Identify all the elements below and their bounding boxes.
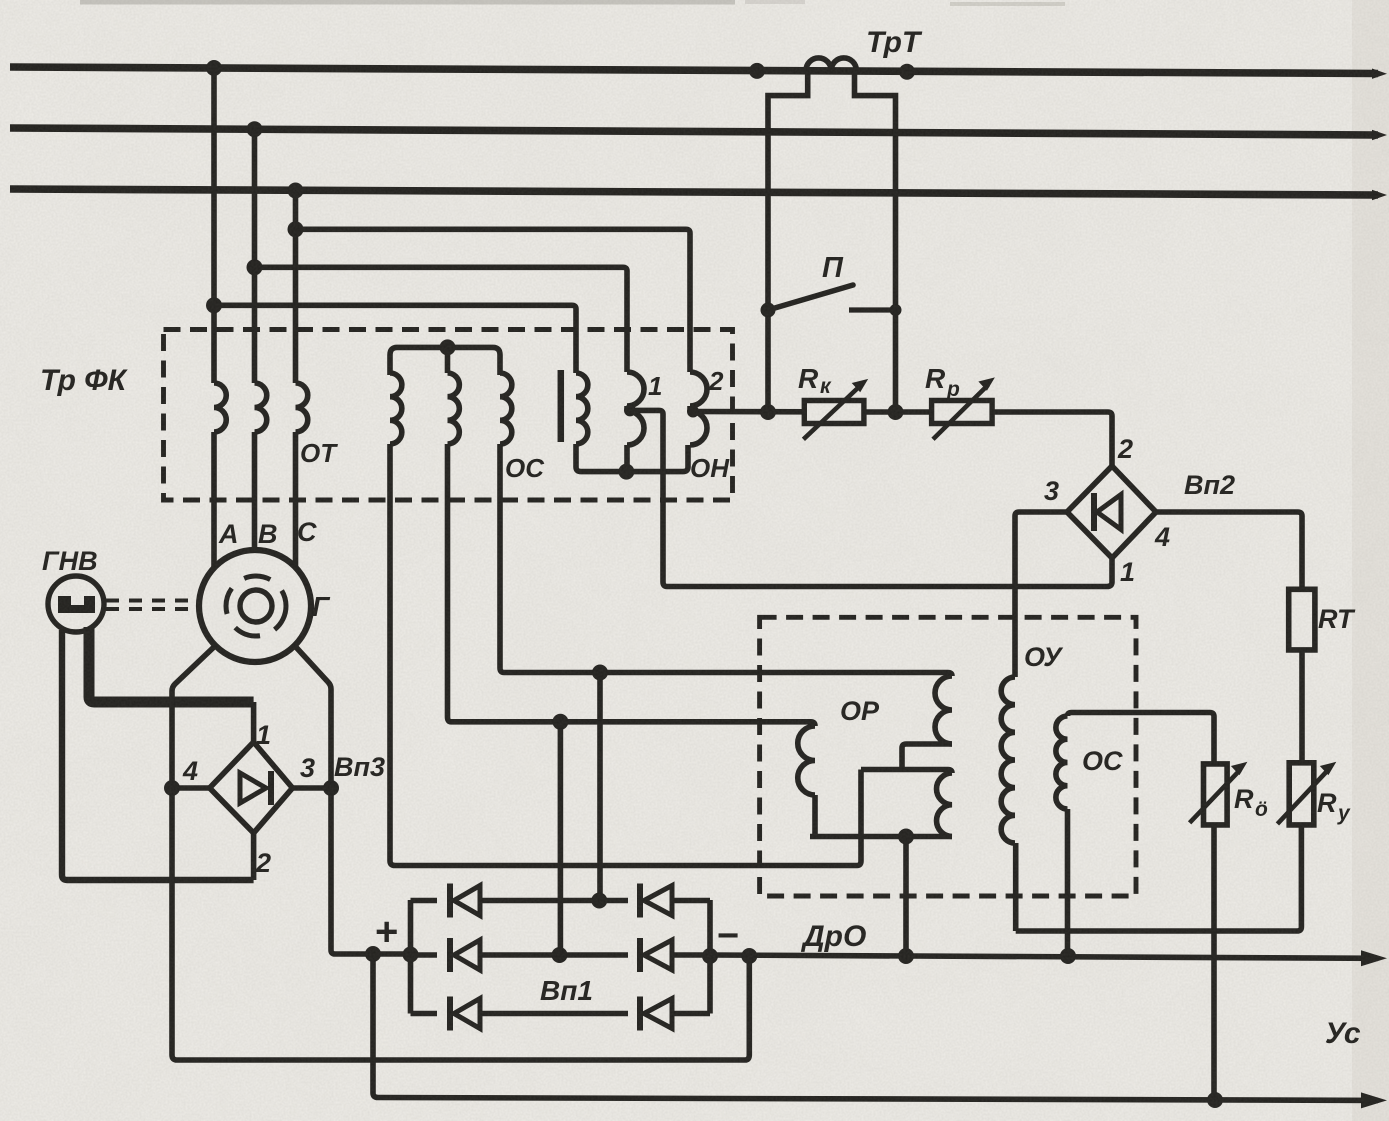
transformer core bar — [558, 370, 565, 442]
generator G outer circle — [199, 550, 311, 662]
winding OS (DrO) — [1068, 713, 1215, 764]
exciter GNV circle — [48, 576, 104, 632]
wire: OR middle link — [861, 770, 952, 774]
wire: phase A drop — [211, 68, 217, 384]
wire: phase C drop — [293, 190, 299, 383]
thick exciter wire GNV to Vp3 node 1 — [89, 627, 254, 702]
Vp1 diode L1 — [447, 884, 453, 918]
wire: phase B drop — [252, 129, 258, 383]
node A on bus 1 — [206, 60, 222, 76]
switch P blade — [768, 285, 853, 310]
resistor Ro — [1204, 764, 1228, 825]
switch P right stub — [849, 307, 896, 312]
dashed box DrO — [760, 617, 1136, 896]
node plus on left rail — [403, 947, 419, 963]
winding OS coil middle — [448, 373, 460, 444]
wire: OR bottom bus — [810, 834, 952, 840]
Vp1 diode R1 — [637, 884, 643, 918]
wire: OS-right bottom to OR coil A (y=672.5) — [500, 444, 952, 676]
resistor Rk — [804, 401, 864, 424]
Vp1 diode L3 — [447, 997, 453, 1031]
node C on bus 3 — [288, 183, 304, 199]
node Vp3-3 junction — [323, 780, 339, 796]
winding OT phase B — [255, 383, 267, 432]
Vp1 diode R3 — [637, 997, 643, 1031]
resistor Rp — [932, 401, 993, 424]
node: branch to Vp1 middle row — [552, 714, 568, 730]
wire: G left phase diagonal down — [172, 646, 749, 1060]
node on Vp1 top row — [591, 893, 607, 909]
node plus branch — [365, 946, 381, 962]
wire: G right phase diagonal down to plus — [295, 646, 411, 954]
wire: OH coil2 tap to Rk — [690, 409, 804, 415]
node Ro on lower Us line — [1207, 1092, 1223, 1108]
wire: OH bottom bus — [576, 444, 688, 472]
generator G rotor circle — [240, 590, 272, 622]
rectifier Vp2 diamond — [1067, 466, 1156, 558]
winding OH coil 2 — [690, 372, 707, 406]
bus line 1 (phase A) — [10, 67, 1378, 74]
node: OH coil2 tap — [687, 406, 699, 418]
node on minus bus from bottom loop — [741, 948, 757, 964]
wire: C to OH coil 2 — [296, 229, 691, 372]
resistor Ry — [1289, 763, 1314, 825]
wire: OR left leg down-left to OS-left coil of TrFK — [390, 444, 861, 866]
node: wire2 branch on B — [247, 259, 263, 275]
Vp1 left rail — [408, 900, 414, 1014]
wire: OU bottom to y=931 — [1013, 843, 1019, 931]
Vp1 diode R2 — [637, 938, 643, 972]
wire: Rk to Rp — [864, 409, 932, 415]
diode of Vp2 (points left) — [1091, 493, 1097, 531]
minus bus / upper Us line — [710, 955, 1378, 958]
wire: Vp2 node3 to OU — [1015, 512, 1067, 677]
winding OR coil B — [937, 773, 952, 837]
dashed box TrFK — [164, 330, 733, 501]
wire: B to OH coil 1 — [255, 267, 628, 372]
transformer TrT secondary loops — [806, 58, 856, 71]
winding OT phase C — [296, 383, 308, 432]
wire: Ry bottom to OU bottom (y=931) — [1016, 825, 1302, 931]
wire: TrT left tap down to Rk wire — [768, 71, 808, 413]
node on Vp1 middle row — [552, 947, 568, 963]
node B on bus 2 — [247, 121, 263, 137]
wire: A to OH left coil — [214, 305, 576, 373]
winding OH coil 1 — [627, 372, 644, 406]
wire: TrT right tap down to Rp wire — [855, 71, 896, 413]
node: wire1 branch on C — [288, 221, 304, 237]
winding OS coil left — [390, 373, 402, 444]
Vp1 right rail — [707, 900, 713, 1014]
shaft dashes between GNV and G — [106, 599, 200, 603]
node: OH coil1 tap — [624, 404, 636, 416]
node Vp3-4 junction — [164, 780, 180, 796]
switch P left terminal — [761, 303, 776, 318]
node OS top middle — [440, 339, 456, 355]
node: TrT right junction on bus 1 — [899, 64, 915, 80]
node: TrT left junction on bus 1 — [749, 63, 765, 79]
winding OS coil right — [500, 373, 512, 444]
winding OH left coil — [576, 373, 588, 444]
switch P right terminal — [890, 304, 902, 316]
resistor RT — [1289, 589, 1315, 650]
generator G dashed inner ring — [226, 576, 286, 636]
winding OS top bus — [390, 347, 500, 375]
wire: RT to Ry — [1299, 650, 1305, 763]
node minus bus at right rail — [702, 948, 718, 964]
node on Rk wire (left) — [760, 404, 776, 420]
node OR on minus bus — [898, 948, 914, 964]
wire: OS-middle bottom to OR coil C (y=721.8) — [448, 444, 816, 726]
bus line 3 (phase C) — [10, 189, 1378, 195]
wire: OR A bottom jog — [902, 744, 952, 770]
winding OR coil C — [798, 726, 815, 795]
GNV brush symbol — [58, 596, 95, 613]
winding OT phase A — [214, 383, 226, 432]
wire: OR bottom to minus bus — [903, 837, 909, 957]
node OS(DrO) on minus bus — [1060, 948, 1076, 964]
node OH bottom — [618, 464, 634, 480]
node: branch to Vp1 top row — [592, 665, 608, 681]
wire: GNV left lead to Vp3 node 2 — [62, 630, 254, 880]
Vp1 row 2 wires — [411, 952, 438, 958]
wire: OH coil1 tap to Vp2 bottom — [627, 410, 1112, 586]
wire: Vp3 node 4 stub — [172, 785, 210, 791]
diode of Vp3 (points right) — [240, 773, 266, 803]
node: wire3 branch on A — [206, 297, 222, 313]
node OR bottom — [898, 829, 914, 845]
wire: plus down to lower Us line — [373, 954, 1378, 1100]
winding OR coil A — [935, 676, 952, 744]
winding OU — [1001, 677, 1015, 843]
wire: Vp3 node 3 stub — [293, 785, 332, 791]
Vp1 row 3 wires — [411, 1011, 438, 1017]
wire: OS(DrO) bottom to minus bus — [1065, 809, 1071, 956]
bus line 2 (phase B) — [10, 128, 1378, 135]
Vp1 diode L2 — [447, 938, 453, 972]
wire: Ro bottom down to lower Us line — [1211, 825, 1217, 1099]
node on Rk-Rp wire — [888, 404, 904, 420]
rectifier Vp3 diamond — [210, 742, 293, 833]
wire: OH coil1 bottom stub — [624, 445, 630, 472]
wire: Rp to Vp2 top — [992, 412, 1112, 466]
Vp1 row 1 wires — [411, 898, 438, 904]
wire: Vp2 node4 to RT — [1156, 512, 1302, 589]
top page-edge smudge (cropped text remnants) — [80, 0, 735, 5]
